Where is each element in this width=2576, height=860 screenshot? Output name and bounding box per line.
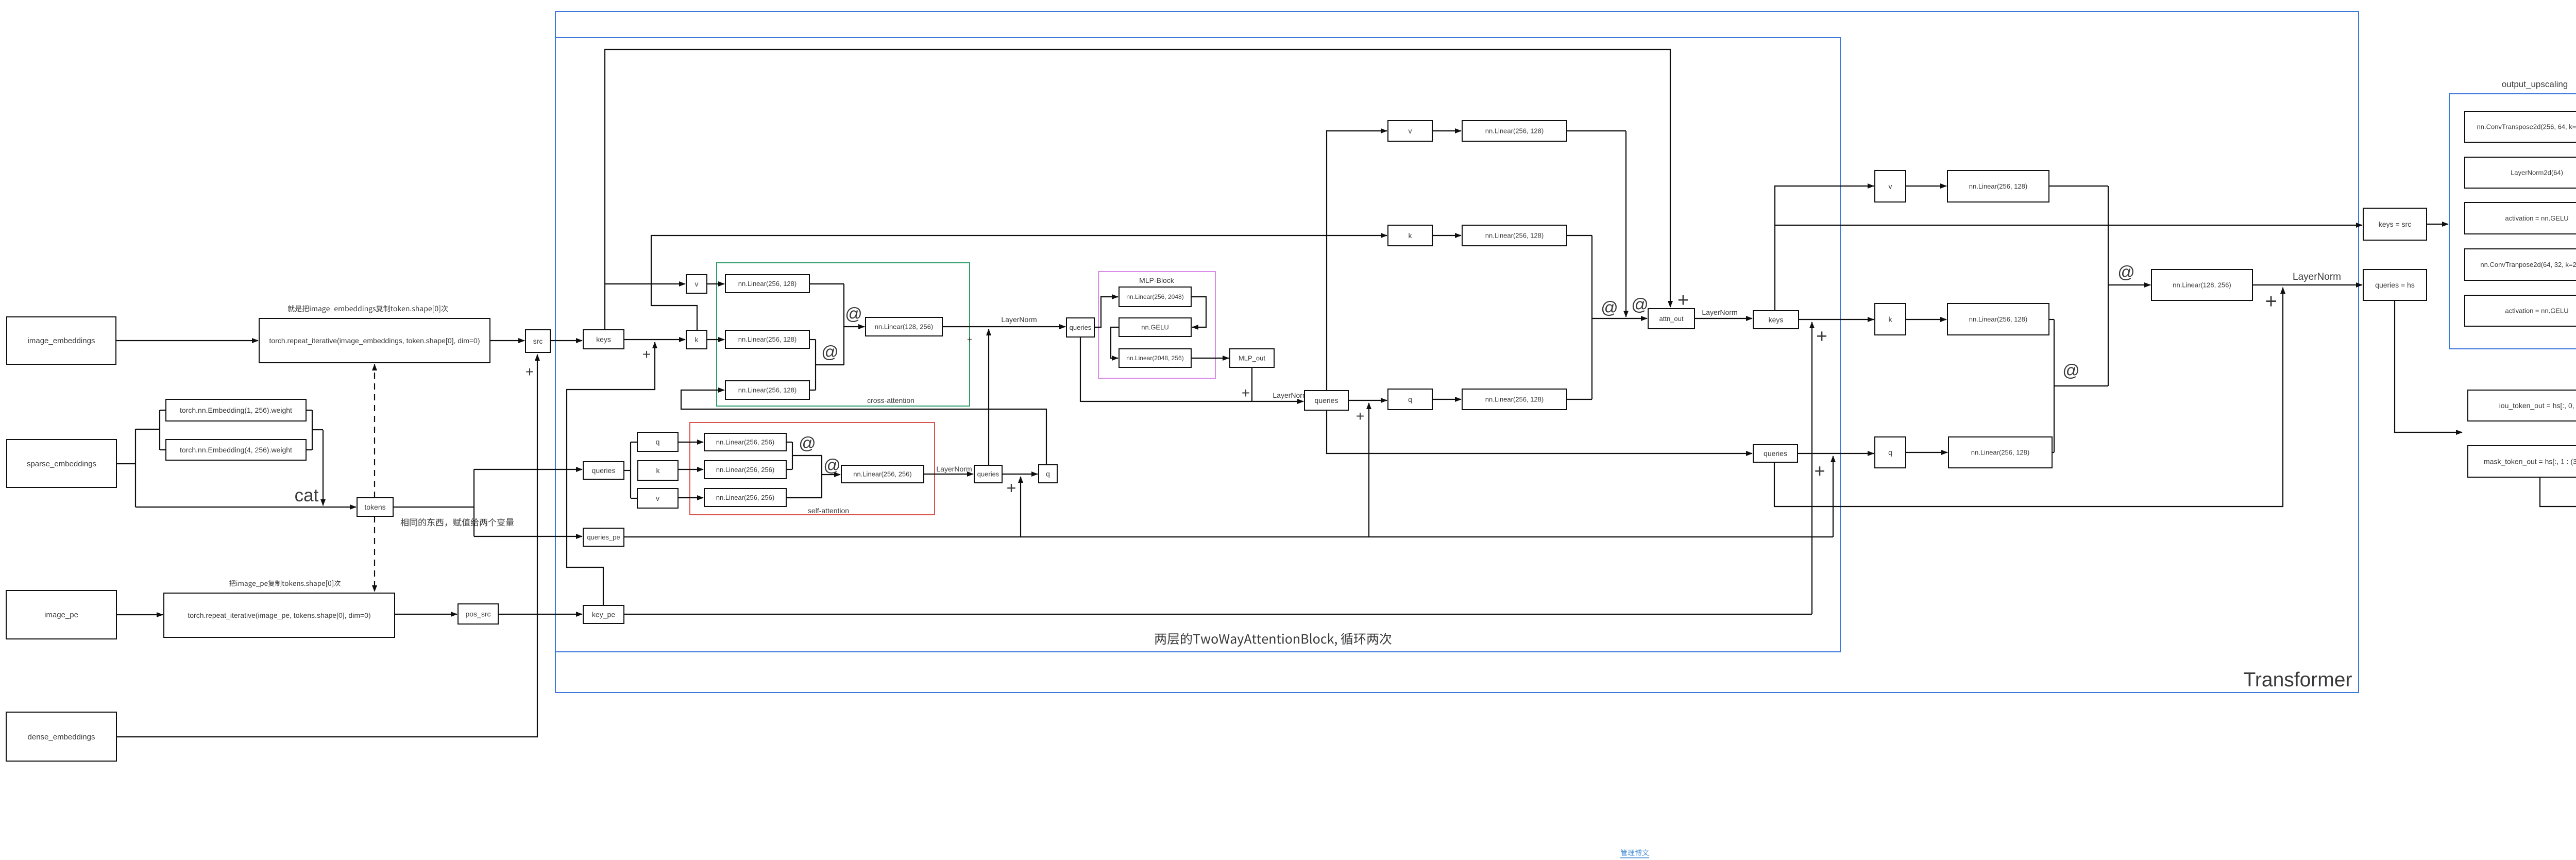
wire keys2->keys_src — [1775, 225, 2362, 226]
box iou_token — [2468, 390, 2576, 421]
svg-text:torch.nn.Embedding(4, 256).wei: torch.nn.Embedding(4, 256).weight — [180, 446, 292, 454]
box queries2 — [974, 465, 1002, 483]
wire queries1->M1 — [1094, 297, 1118, 327]
svg-text:nn.Linear(256, 256): nn.Linear(256, 256) — [853, 470, 911, 478]
container MLP-Block — [1098, 272, 1215, 378]
box repeat_ie — [259, 318, 490, 363]
box MLq — [1462, 389, 1567, 410]
box MLk — [1462, 225, 1567, 246]
box kF — [1875, 303, 1906, 335]
svg-text:output_upscaling: output_upscaling — [2502, 79, 2568, 89]
box M3 — [1119, 349, 1191, 367]
svg-text:mask_token_out = hs[:, 1 : (3+: mask_token_out = hs[:, 1 : (3+1), :] — [2484, 457, 2576, 465]
svg-text:+: + — [1356, 408, 1364, 424]
box qF — [1875, 437, 1906, 468]
box FLq — [1948, 437, 2052, 468]
svg-text:nn.Linear(256, 128): nn.Linear(256, 128) — [738, 335, 796, 343]
wire vS->SL3 — [678, 497, 703, 498]
svg-text:q: q — [1888, 448, 1892, 457]
wire keys2->kF — [1799, 319, 1874, 320]
wire SLout->queries2 — [924, 474, 973, 475]
wire FLv out — [2049, 186, 2108, 187]
svg-text:nn.Linear(256, 128): nn.Linear(256, 128) — [738, 280, 796, 288]
svg-text:cross-attention: cross-attention — [867, 396, 914, 404]
wire tokens->queries — [474, 469, 582, 470]
svg-text:image_embeddings: image_embeddings — [28, 336, 95, 345]
box queries4 — [1753, 445, 1798, 462]
wire L1 v vert — [843, 284, 844, 365]
svg-text:v: v — [1409, 127, 1412, 135]
svg-text:nn.Linear(256, 128): nn.Linear(256, 128) — [1969, 182, 2027, 190]
wire queries1 residual — [1080, 337, 1303, 401]
wire sparse->tokens — [135, 507, 356, 508]
svg-text:MLP_out: MLP_out — [1239, 355, 1265, 362]
wire queries3->queries4 — [1327, 410, 1752, 453]
svg-text:tokens: tokens — [364, 503, 385, 511]
wire ML->attn_out — [1626, 318, 1647, 319]
box queries_hs — [2363, 269, 2427, 300]
wire kS->SL2 — [678, 469, 703, 470]
svg-text:queries: queries — [1070, 324, 1092, 331]
wire q2->L1q — [681, 390, 1046, 465]
svg-text:activation = nn.GELU: activation = nn.GELU — [2505, 307, 2568, 315]
svg-text:@: @ — [799, 433, 816, 452]
wire SL3 out — [786, 497, 822, 498]
box up4 — [2465, 249, 2576, 280]
wire queriesSA->bracket — [624, 470, 631, 471]
wire FL kq bracket — [2054, 319, 2055, 452]
box M1 — [1119, 287, 1191, 307]
box queries1 — [1066, 318, 1094, 337]
wire queries3->vM — [1327, 131, 1387, 391]
wire emb1 out — [306, 410, 312, 411]
wire L1 kq bracket — [815, 340, 816, 390]
svg-text:+: + — [967, 334, 972, 344]
wire image_embeddings->repeat_ie — [116, 340, 258, 341]
svg-text:queries: queries — [592, 466, 616, 475]
box M2 — [1119, 318, 1191, 336]
box qS — [637, 432, 678, 451]
wire repeat_pe->pos_src — [395, 614, 457, 615]
wire M2->M3 — [1111, 327, 1119, 358]
wire sparse->split — [116, 463, 135, 464]
svg-text:keys: keys — [1769, 315, 1784, 324]
container TwoWayAttentionBlock — [555, 38, 1840, 652]
svg-text:queries_pe: queries_pe — [587, 533, 620, 541]
svg-text:+: + — [1677, 290, 1689, 311]
svg-text:dense_embeddings: dense_embeddings — [28, 733, 95, 741]
wire SL v vert — [821, 456, 822, 498]
svg-text:image_pe: image_pe — [44, 611, 78, 619]
box queries_pe — [583, 528, 624, 546]
box keys_src — [2363, 208, 2427, 240]
wire queries_pe up1 — [1020, 477, 1021, 537]
wire MLP_out down — [1251, 367, 1252, 401]
box repeat_pe — [164, 593, 395, 637]
wire queries4->qF — [1798, 453, 1874, 454]
svg-text:LayerNorm: LayerNorm — [936, 465, 972, 473]
wire k1->L1k — [707, 339, 724, 340]
wire src->keys — [550, 340, 582, 341]
box FLk — [1947, 303, 2049, 335]
box FLv — [1947, 171, 2049, 202]
box L1v — [725, 275, 809, 293]
svg-text:+: + — [1007, 479, 1016, 497]
svg-text:nn.Linear(256, 256): nn.Linear(256, 256) — [716, 494, 774, 501]
wire tokens->bracket — [393, 507, 474, 508]
svg-text:nn.Linear(256, 128): nn.Linear(256, 128) — [1485, 127, 1544, 135]
svg-text:@: @ — [2062, 361, 2080, 380]
svg-text:nn.Linear(2048, 256): nn.Linear(2048, 256) — [1126, 355, 1183, 362]
wire M1->M2 — [1191, 297, 1206, 327]
svg-text:cat: cat — [295, 485, 319, 505]
box k1 — [686, 330, 707, 349]
container Transformer — [555, 11, 2359, 693]
box Lout2 — [2151, 269, 2252, 300]
box attn_out — [1648, 309, 1694, 329]
wire ML v vert — [1625, 131, 1626, 317]
wire SL2 out — [786, 469, 792, 470]
box kS — [638, 461, 678, 480]
svg-text:@: @ — [821, 342, 839, 361]
container cross-attention — [717, 263, 970, 406]
wire cat join — [323, 430, 324, 505]
box image_embeddings — [7, 317, 116, 364]
box vF — [1875, 171, 1906, 202]
label note_repeat_pe — [229, 580, 341, 588]
svg-text:q: q — [656, 437, 660, 446]
box vM — [1388, 121, 1432, 141]
svg-text:queries: queries — [977, 470, 999, 478]
svg-text:keys = src: keys = src — [2379, 220, 2411, 228]
box up1 — [2465, 111, 2576, 142]
wire L1->Lout1 — [844, 326, 865, 327]
box MLP_out — [1230, 349, 1274, 367]
svg-text:@: @ — [1601, 298, 1618, 317]
wire pos_src->key_pe — [498, 614, 582, 615]
svg-text:nn.Linear(256, 2048): nn.Linear(256, 2048) — [1126, 293, 1183, 300]
wire FLq out — [2052, 452, 2054, 453]
svg-text:torch.repeat_iterative(image_e: torch.repeat_iterative(image_embeddings,… — [269, 336, 480, 345]
wire mask_token down — [2540, 477, 2576, 507]
box SLout — [841, 465, 924, 483]
box Lout1 — [866, 317, 942, 336]
svg-text:LayerNorm: LayerNorm — [1702, 308, 1737, 316]
svg-text:attn_out: attn_out — [1659, 315, 1684, 323]
label twoway_label — [1155, 633, 1392, 647]
box queriesSA — [583, 462, 624, 479]
box MLv — [1462, 121, 1567, 141]
svg-text:nn.ConvTranpose2d(64, 32, k=2,: nn.ConvTranpose2d(64, 32, k=2, s=2) — [2480, 261, 2576, 268]
svg-text:nn.Linear(128, 256): nn.Linear(128, 256) — [2173, 281, 2231, 289]
wire image_pe->repeat_pe — [116, 614, 163, 615]
box vS — [637, 488, 678, 508]
svg-text:nn.Linear(256, 128): nn.Linear(256, 128) — [1969, 315, 2027, 323]
wire FL->Lout2 — [2108, 284, 2150, 285]
container output_upscaling — [2449, 94, 2576, 349]
wire qS->SL1 — [678, 442, 703, 443]
wire keys->k1 — [624, 339, 685, 340]
wire queries_pe up3 — [1833, 456, 1834, 537]
wire L1 kq mid — [816, 364, 844, 365]
wire ML kq bracket — [1591, 235, 1592, 399]
svg-text:nn.ConvTranspose2d(256, 64, k=: nn.ConvTranspose2d(256, 64, k=2, s=2) — [2477, 123, 2576, 131]
box dense_embeddings — [6, 712, 116, 761]
wire emb bracket left — [159, 410, 160, 450]
svg-text:torch.repeat_iterative(image_p: torch.repeat_iterative(image_pe, tokens.… — [188, 611, 370, 619]
wire L1q out — [809, 390, 816, 391]
svg-text:nn.Linear(256, 128): nn.Linear(256, 128) — [738, 386, 796, 394]
wire attn_out->keys2 — [1694, 318, 1752, 319]
svg-text:torch.nn.Embedding(1, 256).wei: torch.nn.Embedding(1, 256).weight — [180, 406, 292, 414]
wire tokens bracket vert — [473, 469, 474, 536]
wire SL1 out — [786, 442, 792, 443]
svg-text:nn.Linear(256, 256): nn.Linear(256, 256) — [716, 439, 774, 446]
svg-text:+: + — [1816, 326, 1827, 347]
wire emb out mid — [312, 429, 323, 430]
svg-text:@: @ — [1631, 295, 1649, 314]
wire keys_src->upscaling — [2427, 224, 2448, 225]
box qM — [1388, 389, 1432, 410]
wire queries3->qM — [1348, 400, 1387, 401]
wire keys residual to attn_out — [605, 49, 1670, 330]
wire sparse split vertical — [135, 429, 136, 507]
svg-text:k: k — [695, 335, 699, 344]
box up3 — [2465, 203, 2576, 234]
box kM — [1388, 225, 1432, 246]
wire emb4 stub — [160, 449, 166, 450]
wire queries_pe up2 — [1368, 403, 1369, 537]
svg-text:+: + — [526, 364, 534, 380]
box up5 — [2465, 295, 2576, 326]
svg-text:Transformer: Transformer — [2244, 669, 2352, 691]
wire tokens->queries_pe — [474, 536, 582, 537]
wire queries_hs down — [2395, 300, 2462, 432]
wire queries2 up — [988, 329, 989, 465]
wire sparse->emb bracket — [135, 429, 160, 430]
svg-text:LayerNorm: LayerNorm — [2293, 272, 2341, 282]
wire v1->L1v — [707, 283, 724, 284]
box up2 — [2465, 157, 2576, 188]
wire queries_pe net — [624, 536, 1833, 537]
box v1 — [686, 275, 707, 293]
svg-text:key_pe: key_pe — [592, 610, 615, 618]
wire vF->FLv — [1906, 186, 1946, 187]
wire FL kq mid — [2054, 385, 2108, 386]
wire MLv out — [1567, 130, 1626, 131]
svg-text:src: src — [533, 337, 543, 345]
wire emb bracket right — [312, 410, 313, 450]
svg-text:MLP-Block: MLP-Block — [1139, 276, 1175, 284]
box mask_token — [2468, 446, 2576, 477]
svg-text:v: v — [656, 494, 659, 502]
box SL3 — [704, 488, 786, 507]
wire keys2->vF — [1775, 186, 1874, 311]
svg-text:queries = hs: queries = hs — [2375, 281, 2415, 289]
wire key_pe net — [624, 614, 1812, 615]
svg-text:+: + — [1242, 385, 1250, 401]
svg-text:LayerNorm2d(64): LayerNorm2d(64) — [2511, 169, 2563, 177]
svg-text:v: v — [695, 280, 699, 288]
wire queries2->q2 — [1002, 474, 1038, 475]
box embedding1 — [166, 399, 306, 421]
wire repeat_ie->src — [490, 340, 524, 341]
box embedding4 — [166, 440, 306, 460]
svg-text:queries: queries — [1315, 396, 1338, 404]
wire ML kq mid — [1592, 318, 1626, 319]
box pos_src — [458, 604, 498, 624]
svg-text:LayerNorm: LayerNorm — [1273, 391, 1308, 399]
wire Lout1->queries1 — [942, 326, 1065, 327]
wire qM->MLq — [1432, 399, 1461, 400]
svg-text:v: v — [1889, 182, 1892, 190]
svg-text:@: @ — [823, 456, 841, 475]
box tokens — [357, 498, 393, 516]
wire key_pe->plus — [567, 342, 655, 605]
wire M3->MLP_out — [1191, 358, 1229, 359]
wire Lout2->queries_hs — [2252, 284, 2362, 285]
box src — [526, 330, 550, 352]
wire emb1 stub — [160, 410, 166, 411]
box q2 — [1039, 465, 1057, 483]
wire bracket->vS — [631, 498, 637, 499]
container self-attention — [690, 423, 935, 515]
svg-text:sparse_embeddings: sparse_embeddings — [27, 460, 96, 468]
wire tokens-imgemb dashed — [374, 364, 375, 498]
svg-text:LayerNorm: LayerNorm — [1001, 315, 1037, 324]
label link_manage — [1621, 849, 1649, 856]
label note_repeat_ie — [288, 305, 448, 313]
wire emb4 out — [306, 449, 312, 450]
svg-text:+: + — [1814, 460, 1825, 481]
svg-text:k: k — [1409, 231, 1413, 240]
box key_pe — [583, 605, 624, 623]
box L1q — [725, 381, 809, 399]
svg-text:self-attention: self-attention — [808, 507, 849, 515]
box keys — [583, 330, 624, 349]
wire tokens-imgpe dashed — [374, 516, 375, 592]
svg-text:q: q — [1408, 395, 1412, 403]
wire L1k out — [809, 339, 816, 340]
svg-text:activation = nn.GELU: activation = nn.GELU — [2505, 214, 2568, 222]
box keys2 — [1753, 311, 1799, 329]
wire key_pe up2 — [1811, 322, 1812, 614]
svg-text:iou_token_out = hs[:, 0, :]: iou_token_out = hs[:, 0, :] — [2499, 401, 2576, 410]
svg-text:keys: keys — [596, 335, 611, 343]
box image_pe — [6, 591, 116, 639]
svg-text:nn.Linear(256, 128): nn.Linear(256, 128) — [1485, 232, 1544, 240]
svg-text:+: + — [2265, 290, 2277, 313]
wire qkv bracket — [630, 442, 631, 498]
link underline — [1620, 857, 1649, 858]
wire SL->SLout — [822, 474, 840, 475]
svg-text:nn.Linear(256, 128): nn.Linear(256, 128) — [1971, 449, 2029, 457]
svg-text:nn.Linear(128, 256): nn.Linear(128, 256) — [875, 323, 933, 331]
wire MLk out — [1567, 235, 1592, 236]
box queries3 — [1304, 391, 1348, 410]
svg-text:queries: queries — [1764, 449, 1787, 458]
wire bracket->qS — [631, 442, 637, 443]
label note_same — [400, 518, 514, 527]
svg-text:@: @ — [845, 304, 862, 323]
box sparse_embeddings — [7, 440, 116, 487]
wire queries4 residual — [1774, 288, 2283, 507]
box SL2 — [704, 461, 786, 479]
svg-text:nn.Linear(256, 128): nn.Linear(256, 128) — [1485, 396, 1544, 403]
wire FLk out — [2049, 319, 2054, 320]
svg-text:k: k — [656, 466, 660, 475]
wire L1v out — [809, 283, 844, 284]
box L1k — [725, 330, 809, 348]
box SL1 — [704, 433, 786, 451]
wire kM->MLk — [1432, 235, 1461, 236]
svg-text:@: @ — [2117, 262, 2135, 281]
wire dense->src — [116, 355, 537, 737]
svg-text:pos_src: pos_src — [465, 610, 490, 618]
wire SL qk bracket — [792, 442, 793, 469]
svg-text:nn.Linear(256, 256): nn.Linear(256, 256) — [716, 466, 774, 474]
wire SL qk mid — [792, 455, 822, 456]
svg-text:k: k — [1889, 315, 1893, 323]
wire MLq out — [1567, 399, 1592, 400]
svg-text:+: + — [642, 346, 651, 362]
wire keys+keype net to kM — [651, 235, 1387, 330]
wire qF->FLq — [1906, 452, 1947, 453]
svg-text:q: q — [1046, 469, 1050, 478]
wire vM->MLv — [1432, 130, 1461, 131]
wire FL v vert — [2108, 186, 2109, 386]
wire keys->v1 — [605, 283, 685, 284]
svg-text:nn.GELU: nn.GELU — [1141, 324, 1168, 331]
wire kF->FLk — [1906, 319, 1946, 320]
